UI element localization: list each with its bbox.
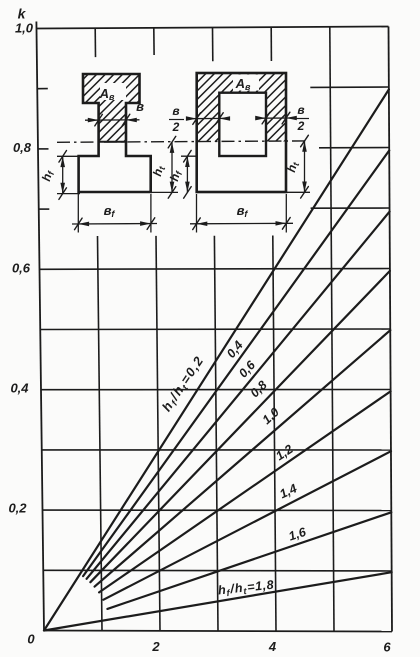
dim b/2 left ticks (193, 113, 201, 125)
curve h_f/h_t=0.2 (44, 89, 389, 630)
dim h_f2 ext top (181, 155, 198, 157)
gridline x=4 top stub (270, 27, 272, 61)
curve h_f/h_t=1.6 (107, 512, 391, 609)
gridline x=2 top stub (153, 28, 155, 55)
gridline x=3 top stub (212, 28, 214, 62)
dim h_t arrow top (170, 142, 175, 153)
svg-text:k: k (18, 6, 27, 22)
svg-text:0,6: 0,6 (12, 261, 31, 276)
dim B_f2 line (190, 222, 293, 225)
dim b arrow left (88, 118, 99, 123)
svg-text:0: 0 (27, 632, 35, 647)
centerline (dash-dot) (57, 141, 308, 142)
dim h_t2 ticks (301, 135, 309, 147)
box-section outer outline (197, 73, 286, 192)
dim h_f2 ticks (184, 150, 192, 162)
gridline x=1 lower segment (98, 236, 103, 631)
dim B_f ext right (150, 194, 152, 233)
I-section web hatch bottom line (99, 141, 126, 143)
dim b/2 right arrows (255, 116, 266, 121)
svg-text:в: в (297, 103, 304, 117)
right border x=6 (389, 27, 393, 632)
x-axis baseline k=0 (44, 631, 392, 632)
dim b line (85, 119, 140, 121)
gridline k=0.1 (43, 569, 391, 572)
dim h_f2 line (186, 156, 188, 192)
dim B_f tick right (147, 218, 155, 230)
gridline k=0.7 segment (39, 208, 50, 210)
dim h_f arrow bottom (60, 183, 65, 194)
dim h_f ext bottom (57, 193, 80, 195)
gridline k=0.7 segment (311, 207, 390, 209)
svg-text:в: в (172, 104, 179, 118)
dim h_t tick top (168, 136, 176, 148)
gridline x=3 lower segment (214, 236, 218, 631)
svg-text:1,0: 1,0 (15, 21, 34, 36)
svg-text:0,8: 0,8 (13, 140, 32, 155)
gridline k=0.8 segment (38, 148, 49, 150)
dim h_f line (62, 156, 64, 193)
dim b/2 left line (188, 117, 227, 119)
svg-text:6: 6 (383, 640, 391, 655)
dim h_t2 ext bottom (287, 191, 310, 193)
svg-text:в: в (136, 99, 144, 114)
y-axis (36, 22, 44, 631)
svg-text:2: 2 (297, 119, 305, 133)
curve h_f/h_t=1.8 (44, 572, 392, 630)
gridline k=0.5 (40, 328, 390, 331)
box-section hatching (4, 60, 400, 155)
dim b arrow right (126, 118, 137, 123)
gridline x=1 top stub (94, 28, 96, 57)
dim B_f2 ticks (193, 218, 201, 230)
gridline k=0.8 segment (319, 147, 389, 149)
dim b/2 right ticks (262, 112, 270, 124)
gridline k=0.9 segment (37, 88, 48, 90)
curve h_f/h_t=0.8 (90, 271, 390, 582)
dim B_f line (72, 223, 157, 226)
dim h_f tick top (59, 151, 67, 163)
dim h_f arrow top (60, 156, 65, 167)
gridline k=0.4 (41, 389, 391, 391)
dim h_t2 arrows (302, 141, 307, 152)
gridline k=0.3 (42, 449, 391, 451)
dim h_t2 line (304, 141, 306, 192)
box-section A_b label halo (233, 75, 259, 91)
I-section outline (79, 74, 151, 192)
box-section inner hole (219, 93, 266, 156)
dim h_t arrow bottom (170, 182, 175, 193)
svg-text:0,4: 0,4 (10, 381, 29, 396)
curve h_f/h_t=0.6 (87, 212, 390, 579)
dim B_f arrow left (78, 222, 89, 227)
dim h_f tick bottom (59, 188, 67, 200)
dim h_t ext bottom (151, 191, 178, 193)
dim h_f2 arrows (185, 156, 190, 167)
curve h_f/h_t=1.4 (104, 451, 392, 600)
dim B_f ext left (77, 194, 79, 233)
I-section hatching (0, 60, 257, 156)
svg-text:2: 2 (172, 120, 180, 134)
dim B_f2 ext right (285, 194, 287, 233)
dim B_f2 ext left (196, 194, 198, 233)
dim b tick right (122, 114, 130, 126)
gridline k=1.0 (top border) (37, 27, 389, 29)
dim h_f ext top (57, 155, 80, 157)
gridline x=2 lower segment (156, 236, 160, 631)
curve h_f/h_t=1.0 (95, 330, 391, 586)
dim B_f arrow right (140, 221, 151, 226)
dim b/2 right line (259, 117, 294, 119)
svg-text:4: 4 (268, 639, 277, 654)
dim B_f2 arrows (197, 222, 208, 227)
dim b/2 left arrows (186, 116, 197, 121)
gridline k=0.9 segment (310, 86, 389, 88)
dim h_t tick bottom (168, 187, 176, 199)
I-section A_b label halo (100, 83, 126, 100)
svg-text:0,2: 0,2 (8, 501, 27, 516)
dim B_f tick left (75, 218, 83, 230)
gridline k=0.6 (40, 268, 390, 271)
curve h_f/h_t=0.4 (83, 151, 389, 577)
gridline k=0.2 (43, 509, 392, 511)
dim h_t line (171, 142, 173, 192)
gridline x=4 lower segment (273, 236, 276, 632)
gridline x=5 (330, 27, 334, 632)
svg-text:2: 2 (151, 639, 160, 654)
dim b tick left (95, 114, 103, 126)
curve h_f/h_t=1.2 (99, 391, 391, 592)
